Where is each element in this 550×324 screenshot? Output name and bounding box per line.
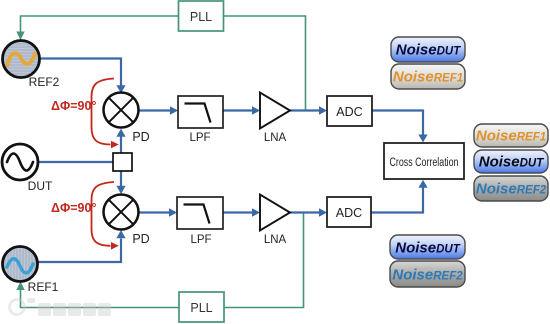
mixer PD top xyxy=(104,93,150,145)
svg-text:REF2: REF2 xyxy=(29,75,60,89)
svg-text:DUT: DUT xyxy=(28,179,53,193)
svg-text:PD: PD xyxy=(132,232,149,246)
svg-text:ADC: ADC xyxy=(336,105,362,119)
noise label NoiseDUT (top group) xyxy=(391,37,465,62)
wire: splitter lower branch to bottom mixer RF input xyxy=(120,171,122,186)
source REF2 xyxy=(3,41,40,78)
svg-text:Cross Correlation: Cross Correlation xyxy=(390,157,459,169)
amplifier LNA bottom xyxy=(260,195,290,247)
noise label NoiseREF1 (top group) xyxy=(391,64,465,89)
wire: bottom mixer output to bottom LPF xyxy=(139,211,170,213)
PLL bottom xyxy=(179,292,224,322)
svg-text:PLL: PLL xyxy=(190,301,212,315)
wire: green bottom PLL left feedback to REF1 xyxy=(21,290,180,308)
svg-text:LNA: LNA xyxy=(264,132,287,144)
wire: REF1 output to bottom mixer LO input xyxy=(38,239,122,263)
power splitter xyxy=(113,153,132,171)
noise label NoiseREF2 (bottom group) xyxy=(390,261,465,287)
low pass filter bottom xyxy=(177,197,223,246)
mixer PD bottom xyxy=(104,195,150,247)
wire: bottom LNA to bottom ADC xyxy=(290,211,320,213)
wire: green top PLL left feedback to REF2 xyxy=(21,16,179,32)
wire: top mixer output to top LPF xyxy=(139,109,171,111)
cross correlator U1 xyxy=(384,143,464,179)
wire: top LNA to top ADC xyxy=(290,109,320,111)
source DUT xyxy=(2,144,38,180)
svg-text:PD: PD xyxy=(132,130,149,144)
svg-text:ΔΦ=90°: ΔΦ=90° xyxy=(51,99,96,113)
wire: top LPF to top LNA xyxy=(223,109,253,111)
svg-text:ΔΦ=90°: ΔΦ=90° xyxy=(51,201,96,215)
svg-text:LPF: LPF xyxy=(189,132,210,144)
PLL top xyxy=(179,1,224,31)
svg-text:LPF: LPF xyxy=(190,234,211,246)
noise label NoiseDUT (bottom group) xyxy=(390,235,465,259)
svg-text:PLL: PLL xyxy=(190,10,212,24)
noise label NoiseREF1 (middle group) xyxy=(474,124,548,147)
noise label NoiseREF2 (middle group) xyxy=(474,176,548,201)
wire: splitter upper branch to top mixer RF input xyxy=(120,137,122,154)
amplifier LNA top xyxy=(260,93,290,145)
source REF1 xyxy=(3,247,38,282)
low pass filter top xyxy=(178,96,223,144)
noise label NoiseDUT (middle group) xyxy=(474,150,548,173)
wire: top ADC to cross correlator xyxy=(372,111,423,136)
watermark xyxy=(10,298,112,316)
wire: bottom LPF to bottom LNA xyxy=(223,211,253,213)
wire: REF2 output to top mixer LO input xyxy=(40,59,122,87)
svg-text:REF1: REF1 xyxy=(28,280,59,294)
wire: green top PLL right tap from top signal path xyxy=(224,16,306,110)
wire: green bottom PLL right tap from bottom signal path xyxy=(224,213,304,308)
phase shift arc bottom (90 degree offset indicator) xyxy=(92,182,115,246)
phase shift arc top (90 degree offset indicator) xyxy=(92,79,115,145)
wire: bottom ADC to cross correlator xyxy=(371,188,423,213)
svg-text:LNA: LNA xyxy=(264,234,287,246)
ADC bottom xyxy=(327,197,371,227)
svg-text:ADC: ADC xyxy=(336,206,362,220)
wire: DUT output to power splitter xyxy=(38,161,113,163)
ADC top xyxy=(327,96,372,126)
